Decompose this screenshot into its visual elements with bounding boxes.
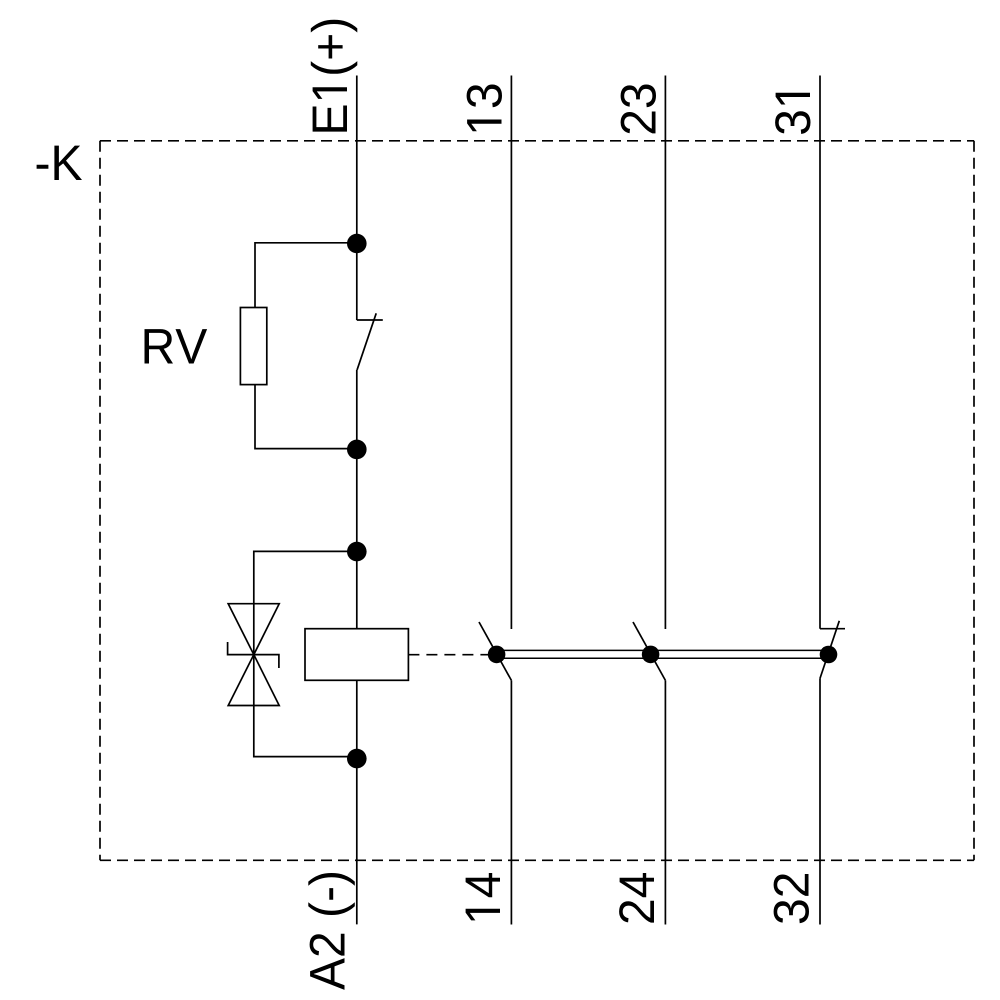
device outline -K (dashed enclosure) left edge [99,141,101,861]
device outline -K (dashed enclosure) bottom edge [100,859,974,861]
NO contact 23-24 upper terminal [664,76,666,630]
label -K [37,146,82,180]
contact linkage double line upper [497,649,829,651]
terminal label 32 [774,874,809,923]
terminal label 31 [775,93,810,134]
wire RV branch bottom [255,385,357,449]
NC contact 31-32 blade [820,621,839,679]
NC contact 31-32 upper terminal [819,76,821,629]
wire E1 rail middle segment [356,370,358,629]
device outline -K (dashed enclosure) right edge [973,141,975,861]
suppressor diode upper triangle [228,604,279,655]
terminal label 24 [619,873,654,923]
NO contact 23-24 lower terminal [664,680,666,924]
NO contact 13-14 lower terminal [510,680,512,924]
junction dot on E1 rail (suppressor bottom) [347,749,367,769]
junction dot on E1 rail (RV bottom) [347,440,367,460]
NC contact 31-32 lower terminal [819,678,821,924]
wire suppressor branch [254,551,357,756]
NO contact 13-14 dot [488,646,506,664]
wire RV branch top [255,243,357,308]
terminal label A2 (-) [308,873,355,990]
resistor RV [240,308,266,385]
contact linkage double line lower [497,657,829,659]
NC contact 31-32 stop bar [820,628,845,630]
terminal label 14 [466,873,500,920]
terminal label E1(+) [311,20,358,132]
NO contact 23-24 blade [633,622,665,680]
wire E1 rail lower segment [356,680,358,924]
device outline -K (dashed enclosure) top edge [100,140,974,142]
wire E1 rail upper segment [356,76,358,321]
NO contact 13-14 upper terminal [510,76,512,630]
junction dot on E1 rail (suppressor top) [347,542,367,562]
terminal label 13 [467,85,502,132]
suppressor Z-bar [228,642,279,668]
label RV [145,329,208,363]
mechanical link from coil (dashed) [408,654,492,656]
NC switch blade [357,313,376,370]
terminal label 23 [621,85,656,134]
NO contact 13-14 blade [479,622,511,680]
NC switch stop bar [357,319,383,321]
relay coil [305,629,408,681]
junction dot on E1 rail (RV top) [347,234,367,254]
NC contact 31-32 dot [820,646,838,664]
NO contact 23-24 dot [642,646,660,664]
suppressor diode lower triangle [228,655,279,706]
